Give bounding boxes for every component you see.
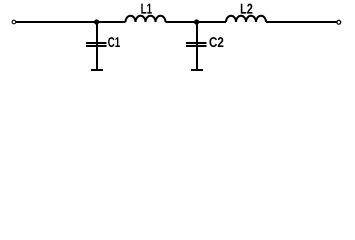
circuit: LC ladder low-pass filter [0, 0, 355, 87]
label L1 [141, 4, 152, 14]
capacitor C1 plates [86, 43, 107, 46]
capacitor C2 plates [186, 43, 207, 46]
ground bar under C2 [191, 69, 203, 71]
label L2 [241, 4, 253, 14]
node B junction dot [194, 19, 199, 24]
inductor L1 [126, 16, 166, 22]
wire input to L1 [16, 21, 126, 23]
label C2 [209, 37, 223, 47]
wire L1 to L2 [166, 21, 227, 23]
node A junction dot [94, 19, 99, 24]
wire L2 to output [266, 21, 337, 23]
ground bar under C1 [91, 69, 103, 71]
inductor L2 [226, 16, 266, 22]
terminal left (input port) [12, 20, 16, 24]
capacitor C1 lead wire [96, 22, 98, 70]
capacitor C2 lead wire [196, 22, 198, 70]
terminal right (output port) [337, 20, 341, 24]
label C1 [108, 37, 120, 47]
